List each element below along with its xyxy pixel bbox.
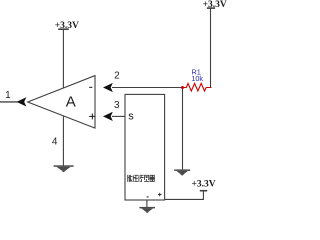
- svg-text:2: 2: [114, 71, 120, 82]
- svg-text:3: 3: [114, 100, 120, 111]
- svg-text:s: s: [128, 111, 134, 123]
- svg-text:4: 4: [52, 136, 58, 147]
- svg-text:10k: 10k: [191, 74, 203, 83]
- svg-text:+3.3V: +3.3V: [192, 180, 216, 190]
- svg-text:A: A: [66, 94, 76, 111]
- svg-text:1: 1: [5, 90, 11, 101]
